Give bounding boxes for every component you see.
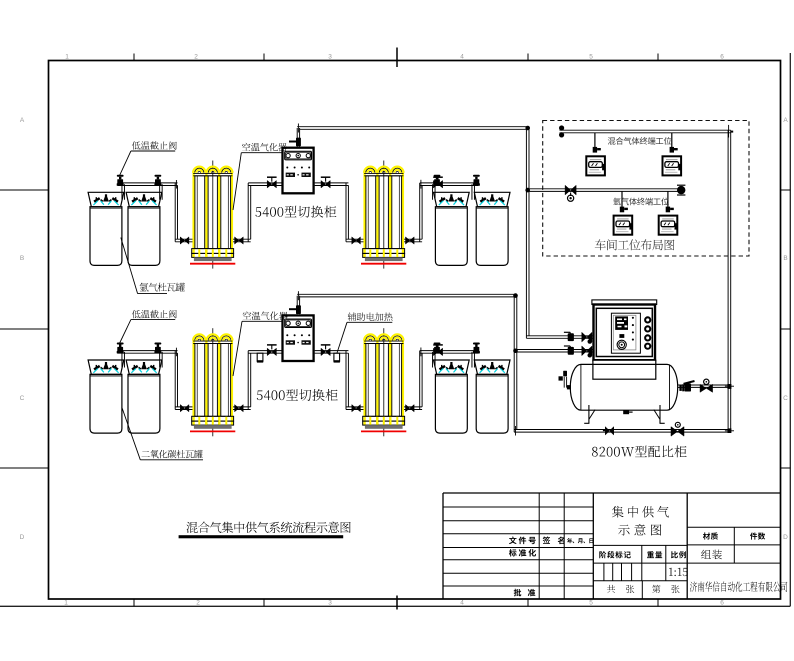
label: argon gas terminal stations: [613, 198, 669, 206]
mixer inlet valve pair 1: [564, 332, 592, 344]
vaporizer left (air-temperature): [190, 161, 235, 269]
svg-text:4: 4: [460, 600, 464, 607]
tank outlet flange: [679, 385, 681, 391]
pipe: vaporizer 1 outlet: [233, 239, 251, 242]
svg-text:C: C: [20, 395, 25, 402]
pipe: drop to vaporizer 2 inlet: [346, 183, 348, 242]
heater element left (auxiliary electric heating): [257, 353, 263, 362]
bus 1 end cap: [559, 125, 564, 130]
svg-text:2: 2: [196, 600, 200, 607]
dewar tank argon #3: [434, 192, 470, 265]
tank left gauge fitting: [563, 371, 567, 377]
pipe: right riser: [728, 130, 731, 432]
terminal drop 1 (mixed gas): [594, 133, 596, 147]
valve at vaporizer 1 outlet: [235, 237, 244, 244]
ruler ticks right: [781, 189, 791, 191]
cryogenic stop valves above tanks: [117, 343, 124, 354]
caption: stage mark / weight / scale: [599, 551, 631, 558]
tank connection elbow stubs: [122, 352, 125, 368]
panel button: [619, 334, 624, 338]
pipe: mixer inlet 2: [514, 350, 593, 353]
terminal drop 2 (mixed gas): [671, 133, 673, 147]
tank legs: [588, 405, 590, 423]
pipe: vaporizer 2 outlet: [404, 407, 422, 410]
valve after cabinet (right): [321, 181, 330, 188]
svg-text:B: B: [20, 255, 24, 262]
svg-text:6: 6: [720, 600, 724, 607]
pipe: riser to switching cabinet: [248, 351, 251, 410]
mixer cabinet cap: [592, 300, 657, 305]
corner tick: [175, 180, 177, 189]
valve before cabinet (left): [267, 348, 276, 355]
valve at vaporizer 2 outlet: [406, 237, 415, 244]
dewar tank CO2 #2: [126, 360, 162, 433]
svg-text:1: 1: [65, 54, 69, 61]
svg-text:6: 6: [720, 54, 724, 61]
valve on cabinet top stub: [296, 138, 301, 147]
valve on bottom line (left): [605, 427, 613, 435]
outer sheet edge right: [789, 53, 791, 606]
caption: total sheets / sheet no: [607, 585, 634, 593]
tank outlet regulator: [700, 384, 713, 392]
pipe: cabinet right outlet: [315, 351, 349, 354]
pipe: cabinet right outlet: [315, 183, 349, 186]
5400 switching cabinet: [283, 315, 314, 361]
value: scale 1:15: [669, 568, 688, 576]
valve at vaporizer 2 inlet: [352, 237, 361, 244]
pipe: vaporizer 1 outlet: [233, 407, 251, 410]
valve at vaporizer 2 inlet: [352, 405, 361, 412]
label: 8200W mixing cabinet: [592, 446, 687, 458]
dewar tank argon #1: [88, 192, 124, 265]
riser bottom corner blob: [728, 428, 732, 433]
valve at vaporizer 1 inlet: [180, 405, 189, 412]
pipe: right riser to right tank manifold: [420, 351, 422, 410]
label+leader: air vaporizer (row1): [242, 143, 287, 152]
pipe: manifold drop to vaporizer inlet: [175, 183, 177, 242]
pipe: mixed-gas bus (bus 1): [560, 130, 731, 133]
svg-text:3: 3: [328, 54, 332, 61]
pipe: mixer inlet 1: [526, 336, 593, 339]
junction dots: [525, 126, 530, 131]
svg-text:1: 1: [64, 600, 68, 607]
pipe: tank manifold left (row at dy=0): [118, 183, 178, 186]
pipe: tank outlet right: [678, 385, 728, 387]
label: workshop station layout: [595, 239, 675, 250]
5400 switching cabinet: [283, 148, 314, 194]
mixer plinth: [593, 360, 656, 379]
svg-text:3: 3: [328, 600, 332, 607]
sheet title: centralized gas supply schematic: [612, 506, 669, 518]
label: 5400 switching cabinet (row1): [255, 206, 336, 218]
svg-text:4: 4: [460, 54, 464, 61]
valve on cabinet top stub: [296, 305, 301, 314]
tank drain valve: [623, 410, 629, 414]
riser tee blob: [727, 384, 731, 389]
caption: material / quantity: [703, 532, 718, 539]
dewar tank argon #2: [126, 192, 162, 265]
valve on right manifold: [433, 181, 442, 188]
pipe: drop to vaporizer 2 inlet: [346, 351, 348, 410]
pipe: bottom return line: [514, 430, 731, 433]
label+leader: cryogenic stop valve (row1): [132, 141, 177, 149]
valve on right manifold: [433, 348, 442, 355]
terminal outlet box B1: [614, 216, 633, 235]
corner tick: [175, 348, 177, 357]
dewar tank CO2 #4: [474, 360, 510, 433]
label+leader: CO2 dewar tank: [142, 450, 203, 458]
svg-text:D: D: [20, 534, 25, 541]
panel gauge knob: [617, 340, 626, 349]
terminal drop 4 (argon): [667, 191, 669, 207]
drawing title (underlined): [186, 522, 350, 533]
svg-text:D: D: [783, 534, 788, 541]
terminal outlet box B2: [659, 216, 678, 235]
pipe: row1 downcomer: [526, 127, 529, 339]
svg-text:5: 5: [589, 600, 593, 607]
heater element right (auxiliary electric heating): [334, 353, 340, 362]
dewar tank CO2 #1: [88, 360, 124, 433]
outer sheet edge bottom: [0, 605, 790, 607]
pipe: cabinet top stub: [297, 128, 299, 147]
valve at vaporizer 1 inlet: [180, 237, 189, 244]
pipe: tank manifold left (row at dy=167.7): [118, 351, 178, 354]
dewar tank argon #4: [474, 192, 510, 265]
ruler ticks bottom: [133, 599, 135, 606]
bus 2 isolation valve and handwheel: [565, 185, 576, 195]
valve on bottom line (right, regulator): [671, 427, 684, 437]
workshop layout dashed boundary: [543, 121, 749, 257]
svg-text:A: A: [783, 117, 788, 124]
label: 5400 switching cabinet (row2): [257, 389, 338, 401]
vaporizer right (air-temperature): [361, 161, 406, 269]
panel indicator dots: [632, 317, 634, 319]
svg-text:A: A: [20, 117, 25, 124]
terminal drop 3 (argon): [621, 191, 623, 207]
terminal outlet box A1: [586, 156, 605, 175]
pipe: cabinet top stub: [297, 296, 299, 315]
panel ring switches: [644, 316, 651, 323]
ruler ticks left: [0, 189, 49, 191]
title block grid: [442, 493, 444, 599]
pipe: manifold drop to vaporizer inlet: [175, 351, 177, 410]
title block captions: [509, 537, 536, 545]
tank outlet lever valve: [685, 383, 691, 391]
pipe: row1 header to downcomer: [297, 127, 529, 130]
vaporizer right (air-temperature): [361, 328, 406, 436]
valve at vaporizer 1 outlet: [235, 405, 244, 412]
pipe: vaporizer 2 outlet: [404, 239, 422, 242]
junction cross ticks: [731, 131, 733, 133]
mixer cabinet body: [594, 305, 656, 361]
label+leader: argon dewar tank: [140, 283, 185, 292]
company name: [690, 581, 787, 591]
label+leader: cryogenic stop valve (row2): [132, 310, 177, 318]
vaporizer left (air-temperature): [190, 328, 235, 436]
valve before cabinet (left): [267, 181, 276, 188]
label: mixed gas terminal stations: [608, 137, 672, 145]
pipe: row2 downcomer: [514, 294, 517, 432]
pipe: row2 header to downcomer: [297, 294, 517, 297]
pipe: riser to switching cabinet: [248, 183, 251, 242]
bus 2 end cap: [677, 186, 685, 194]
ruler ticks top: [133, 54, 135, 61]
svg-text:2: 2: [194, 54, 198, 61]
value: assembly: [701, 550, 722, 560]
terminal outlet box A2: [663, 156, 682, 175]
svg-text:5: 5: [589, 54, 593, 61]
pipe: argon bus (bus 2): [526, 189, 684, 192]
svg-text:B: B: [783, 255, 787, 262]
valve after cabinet (right): [321, 348, 330, 355]
valve at vaporizer 2 outlet: [406, 405, 415, 412]
panel LCD: [615, 316, 628, 330]
svg-text:C: C: [783, 395, 788, 402]
dewar tank CO2 #3: [434, 360, 470, 433]
drawing frame border: [49, 61, 781, 600]
label+leader: air vaporizer (row2): [243, 311, 288, 320]
buffer tank: [570, 364, 677, 410]
cryogenic stop valves above tanks: [117, 175, 124, 186]
tank connection elbow stubs: [122, 184, 125, 200]
label+leader: auxiliary electric heater: [348, 313, 393, 321]
mixer control panel: [611, 313, 640, 353]
pipe: right riser to right tank manifold: [420, 183, 422, 242]
mixer inlet valve pair 2: [564, 346, 592, 358]
